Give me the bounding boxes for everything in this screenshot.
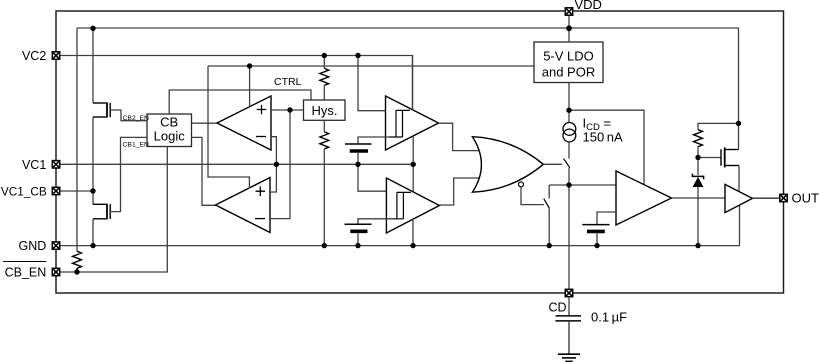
reference cap/battery V1 bottom plate [350,149,368,153]
junction node CD internal [566,182,571,187]
junction VC1 rail to buffer supplies [411,162,416,167]
pin OUT [780,194,787,201]
wire VC2 tap to comparator B1 input [358,56,386,111]
wire B1 bottom supply to VC1 rail [412,136,414,164]
svg-text:CB2_EN: CB2_EN [123,115,150,122]
svg-text:and POR: and POR [542,65,595,80]
wire VC1 to comparator B2 input [358,164,386,191]
reference cap/battery V3 bottom plate [587,230,605,234]
wire B3 output to OUT pin [752,197,779,199]
svg-text:VDD: VDD [575,0,602,12]
wire CTRL (CB Logic top to Hys) [169,90,311,114]
wire VDD pin to LDO [568,15,570,42]
wire A1/A2 shared input column [270,110,290,219]
wire A3 - input [597,212,616,224]
pin VC1 [52,161,59,168]
wire V1 to VC1 rail [357,153,359,165]
wire Q3 drain [725,149,739,151]
svg-text:VC1: VC1 [22,158,46,172]
Hys. block [304,100,346,120]
comparator A2 (points left) [216,178,271,233]
wire Q2 source to GND rail [93,218,107,220]
svg-text:OUT: OUT [792,191,819,206]
junction GND rail at Q2 source [90,243,95,248]
capacitor C1 0.1uF plates [556,315,582,317]
wire CD node to CD pin [568,185,570,289]
hysteresis glyph B2 [389,192,411,218]
resistor R1 (CB_EN pull-up) [73,251,82,272]
wire A1 - input to VC1 [270,137,276,192]
wire VC2 rail [56,56,413,110]
wire S2 top contact [548,185,550,199]
transistor Q2 channel bar [106,204,108,220]
transistor Q1 gate bar [109,103,111,117]
pin CD [565,289,572,296]
junction VC2 rail to R2 [322,53,327,58]
comparator A1 (points left) [217,96,271,150]
svg-text:0.1 µF: 0.1 µF [591,310,627,325]
junction VDD pin node [566,25,572,31]
CB Logic block U1 [147,114,192,147]
wire G1 bubble to S2 [521,187,544,205]
wire 5V rail (LDO output to comparator supplies) [208,65,534,67]
wire C1 to ground [568,321,570,354]
wire B1 reference to capacitor [358,137,390,144]
wire CB Logic to comparator A1 output [192,122,217,124]
wire Q3 gate lead [698,157,721,159]
junction on VDD rail at balance column [90,26,95,31]
svg-text:5-V LDO: 5-V LDO [543,49,594,64]
pin GND [52,242,59,249]
svg-text:Hys.: Hys. [312,103,338,118]
wire LDO output down [568,83,570,123]
svg-text:150 nA: 150 nA [583,129,624,144]
svg-text:CB: CB [160,115,178,130]
reference cap/battery V2 top plate [345,223,372,225]
wire S2 to GND rail [548,208,550,245]
5-V LDO and POR block [534,42,603,83]
wire OR output to switch S1 [543,163,562,165]
svg-text:CB1_EN: CB1_EN [123,142,150,149]
pin VC1_CB [52,187,59,194]
hysteresis glyph B1 [389,110,411,137]
reference cap/battery V3 top plate [582,224,609,226]
wire internal node to amp A3 supply [569,110,644,185]
junction VC1 rail to V1/B2 input [355,162,360,167]
wire A1 + input to Hys [271,109,304,111]
wire R4 to Q3 gate node [697,147,699,158]
wire GND rail [56,204,740,245]
resistor R3 (below Hys) [320,132,329,149]
switch S2 blade [544,199,550,209]
switch S1 blade [564,159,570,168]
reference cap/battery V2 bottom plate [350,230,367,234]
junction A1 + input node [287,107,292,112]
junction GND rail at R3 [322,243,327,248]
wire B1 output to OR gate [439,123,481,150]
transistor Q3 channel bar [724,147,726,167]
junction CB_EN at R1 [74,269,79,274]
IC boundary box [56,11,784,293]
wire current source to switch S1 [568,142,570,159]
svg-text:CD: CD [548,301,566,315]
transistor Q3 gate bar [720,149,722,166]
ground symbol [558,353,580,355]
comparator B1 (Schmitt, VC2 cell) [386,96,439,150]
wire A3 output [672,197,726,199]
wire V2 to GND rail [357,233,359,246]
current source I1 circles [563,122,576,135]
wire CB2_EN (Q1 gate to CB Logic) [110,110,147,121]
wire balance column upper (VDD to Q1 drain) [92,28,94,103]
svg-text:CTRL: CTRL [274,76,302,88]
wire B1 supply from VC2 [412,56,414,110]
output buffer B3 [725,184,752,212]
junction Q3 gate node [695,155,700,160]
wire R3 to GND rail [323,149,325,246]
junction VDD branch to R4 [736,121,741,126]
wire CD node rail [549,184,616,186]
wire B2 reference to capacitor [358,219,393,225]
wire VDD rail right drop to Q3 drain [738,28,740,150]
junction GND rail at S2 [547,243,552,248]
wire CB_EN pull-up column [76,28,78,251]
svg-text:VC1_CB: VC1_CB [1,185,47,199]
junction VC1 rail to comparator inputs [274,162,279,167]
wire Q2 drain from VC1_CB node [92,191,94,204]
wire VDD internal rail [77,27,739,29]
wire R2 to Hys top [323,85,325,100]
pin VC2 [52,52,59,59]
wire CD pin to external capacitor [568,297,570,316]
wire Q1 source to VC1_CB node [93,116,107,118]
junction GND rail at D1 [695,243,700,248]
wire Hys bottom to resistor R3 [323,120,325,132]
transistor Q2 gate bar [109,204,111,219]
reference cap/battery V1 top plate [345,143,372,145]
junction VC2 rail to B1 input [355,53,360,58]
resistor R4 [694,130,703,147]
wire B2 output to OR gate [439,178,480,205]
junction GND rail at V3 [594,243,599,248]
wire Q3 source to buffer B3 supply [725,165,739,167]
svg-text:GND: GND [19,239,47,253]
amp A3 [616,171,672,225]
transistor Q1 channel bar [106,102,108,117]
svg-text:CB_EN: CB_EN [5,266,47,280]
OR gate G1 [472,137,543,193]
resistor R2 (above Hys) [320,68,329,85]
pin CB_EN (active low) [52,268,59,275]
comparator B2 (Schmitt, VC1 cell) [386,178,439,233]
junction VC1_CB node [90,188,95,193]
junction GND rail at V2 [355,243,360,248]
wire CB Logic to comparator A2 output [192,137,216,205]
junction 5V rail to A1 supply [247,63,252,68]
wire V3 to GND rail [596,233,598,245]
wire B2 supply from VC1 rail [412,164,414,191]
junction GND rail at B2 supply [410,243,415,248]
wire CB_EN lead [56,147,167,273]
wire CB1_EN (Q2 gate to CB Logic) [110,137,147,211]
wire VC1_CB lead [56,190,93,192]
wire VDD rail tap to R4 [698,123,739,129]
pin VDD [565,8,572,15]
wire A1 supply [249,66,251,107]
inverted output bubble of G1 [519,182,524,187]
junction LDO output node [566,108,571,113]
wire A2 supply [208,66,249,188]
diode D1 (zener) [697,158,699,176]
wire VC2 tap to resistor R2 [323,56,325,69]
wire S1 to CD node [568,168,570,185]
wire VC1 rail [56,163,413,165]
wire B2 bottom supply to GND rail [412,219,414,246]
svg-text:Logic: Logic [154,129,186,144]
svg-text:VC2: VC2 [22,49,46,63]
